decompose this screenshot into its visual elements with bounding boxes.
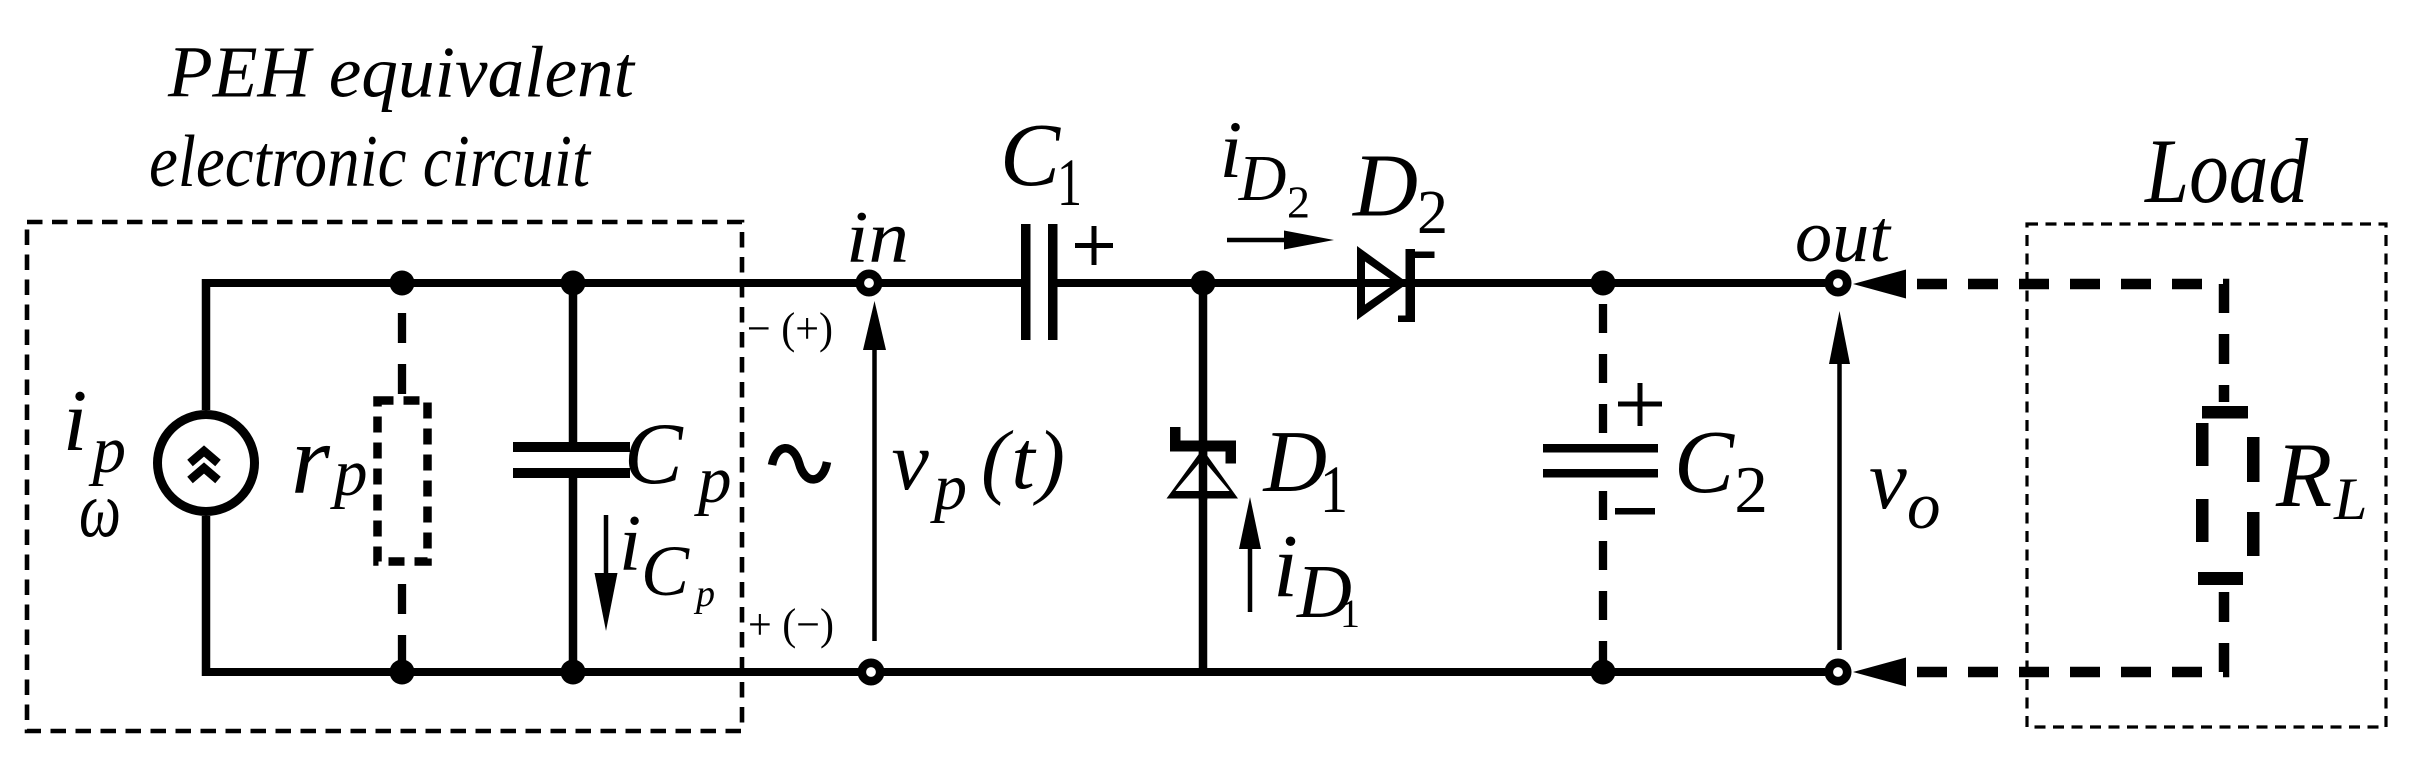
svg-text:p: p [930, 451, 967, 524]
node in open circle [860, 274, 878, 292]
load dashed wire bottom [1907, 585, 2224, 672]
svg-text:C: C [641, 531, 690, 611]
label vp(t) [892, 414, 1066, 524]
diode D2 [1357, 246, 1435, 322]
label iD2 [1220, 104, 1311, 228]
svg-text:2: 2 [1734, 453, 1768, 527]
capacitor Cp plates [513, 442, 630, 452]
resistor RL [2196, 406, 2260, 585]
capacitor C1 plates [1021, 224, 1031, 340]
svg-text:ω: ω [79, 467, 121, 554]
svg-text:i: i [619, 500, 641, 588]
svg-text:D: D [1351, 137, 1418, 236]
svg-text:2: 2 [1287, 177, 1310, 228]
svg-text:C: C [624, 406, 684, 503]
label D2 [1351, 137, 1448, 248]
svg-text:i: i [1273, 517, 1298, 616]
svg-text:p: p [694, 443, 732, 517]
svg-text:o: o [1907, 469, 1941, 543]
svg-text:PEH equivalent: PEH equivalent [167, 32, 636, 113]
load arrow top [1853, 270, 1906, 299]
svg-text:r: r [291, 404, 331, 515]
svg-text:− (+): − (+) [747, 304, 833, 353]
load arrow bottom [1853, 658, 1906, 687]
current arrow iD2 [1227, 231, 1334, 250]
label rp [291, 404, 368, 515]
junction top rail at D1 [1191, 271, 1216, 296]
current source arrow chevrons [190, 451, 218, 480]
current arrow iD1 [1239, 497, 1261, 612]
svg-text:1: 1 [1340, 591, 1360, 636]
wire top rail [202, 279, 1825, 287]
svg-text:p: p [693, 573, 715, 615]
label D1 [1263, 414, 1349, 527]
svg-text:p: p [330, 436, 368, 510]
svg-text:v: v [892, 415, 930, 508]
wire bottom rail [202, 668, 1825, 676]
svg-text:+ (−): + (−) [748, 600, 834, 649]
resistor rp dashed wire bottom [398, 564, 406, 668]
voltage arrow vo [1829, 311, 1850, 650]
junction top rail at rp [390, 271, 415, 296]
capacitor C2 dashed wire bottom [1599, 477, 1607, 668]
label RL [2275, 424, 2367, 532]
svg-text:i: i [63, 373, 87, 470]
label plus at C2 [1618, 383, 1662, 426]
label C2 [1674, 413, 1768, 527]
svg-text:D: D [1263, 414, 1328, 511]
load dashed wire top [1907, 284, 2224, 402]
junction top rail at Cp [561, 271, 586, 296]
junction bottom rail at Cp [561, 660, 586, 685]
wire left vertical [202, 279, 211, 676]
svg-text:D: D [1238, 142, 1287, 215]
label title PEH equivalent electronic circuit [149, 32, 636, 204]
label iCp [619, 500, 715, 615]
diode D1 [1167, 427, 1239, 500]
capacitor Cp wires [569, 283, 578, 672]
current arrow iCp [595, 515, 618, 631]
capacitor C2 plates [1543, 444, 1658, 453]
label ip [63, 373, 126, 487]
PEH equivalent circuit dashed box [27, 222, 742, 731]
svg-text:R: R [2275, 424, 2332, 526]
node out open circle [1829, 274, 1847, 292]
resistor rp [378, 401, 428, 562]
wire D1 vertical [1199, 283, 1208, 672]
capacitor C2 dashed wire top [1599, 290, 1607, 444]
ac tilde symbol [772, 448, 827, 479]
Load dashed box [2027, 224, 2386, 727]
voltage arrow vp [863, 301, 886, 641]
svg-text:electronic circuit: electronic circuit [149, 121, 592, 203]
svg-text:in: in [846, 197, 909, 279]
junction top rail at C2 [1591, 271, 1616, 296]
svg-text:C: C [1000, 106, 1061, 205]
svg-text:L: L [2333, 466, 2367, 532]
svg-text:out: out [1795, 196, 1892, 278]
node in bottom open circle [862, 663, 880, 681]
label iD1 [1273, 517, 1360, 636]
junction bottom rail at rp [390, 660, 415, 685]
label C1 [1000, 106, 1082, 220]
label Cp [624, 406, 732, 517]
label minus at C2 [1615, 508, 1655, 515]
label vo [1869, 433, 1941, 543]
label plus at C1 [1075, 226, 1113, 265]
svg-text:1: 1 [1320, 451, 1348, 527]
svg-text:Load: Load [2143, 120, 2309, 222]
junction bottom rail at C2 [1591, 660, 1616, 685]
resistor rp dashed wire top [398, 293, 406, 397]
svg-text:v: v [1869, 433, 1907, 527]
svg-text:1: 1 [1057, 144, 1082, 220]
svg-text:(t): (t) [981, 414, 1065, 507]
svg-text:2: 2 [1417, 179, 1448, 247]
node out bottom open circle [1829, 663, 1847, 681]
current source ip circle [158, 415, 255, 512]
svg-text:C: C [1674, 413, 1735, 512]
